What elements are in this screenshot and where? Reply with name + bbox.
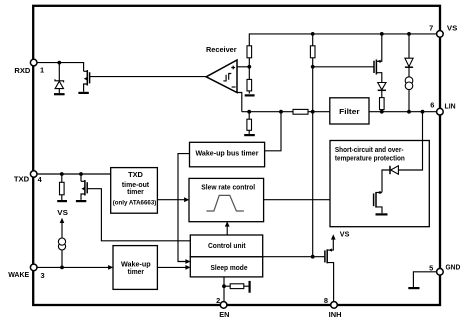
wire LIN rail left part bbox=[242, 111, 330, 113]
node LIN rail at x=381.8 bbox=[380, 110, 384, 114]
box TXD time-out timer bbox=[111, 168, 158, 214]
svg-text:Receiver: Receiver bbox=[206, 45, 237, 54]
wire TXD net bbox=[37, 173, 111, 175]
diode D2 below Q3 bbox=[378, 83, 386, 98]
pin EN (2) bbox=[220, 302, 227, 309]
svg-text:timer: timer bbox=[128, 267, 145, 276]
node TXD junction at x=81 bbox=[79, 172, 83, 176]
box Filter bbox=[330, 98, 369, 124]
diode D4 protection (pointing left) bbox=[382, 166, 398, 193]
svg-text:LIN: LIN bbox=[445, 101, 456, 110]
wire gate drive to Q3 bbox=[313, 66, 374, 68]
svg-text:Sleep mode: Sleep mode bbox=[211, 263, 248, 272]
transistor Q3 LIN driver MOSFET bbox=[374, 34, 382, 82]
resistor in LIN rail (horizontal) bbox=[293, 109, 308, 114]
arrow into sleep mode (top) bbox=[185, 259, 190, 264]
wire RXD net bbox=[37, 63, 84, 72]
svg-text:TXD: TXD bbox=[14, 175, 30, 184]
pin WAKE (3) bbox=[30, 264, 37, 271]
arrow to VS label bbox=[60, 218, 65, 223]
arrow into wake-up timer bbox=[108, 265, 113, 270]
transistor Q1 RXD output MOSFET bbox=[84, 70, 90, 92]
ground below divider bbox=[245, 94, 255, 96]
IC outer boundary bbox=[33, 6, 440, 305]
transistor Q5 INH driver MOSFET bbox=[325, 239, 334, 302]
current source I1 at x=409 bbox=[405, 77, 413, 112]
svg-text:RXD: RXD bbox=[14, 66, 31, 75]
wire GND pin to ground bbox=[413, 272, 437, 287]
svg-text:2: 2 bbox=[216, 296, 220, 305]
svg-text:3: 3 bbox=[41, 271, 45, 280]
zener diode D1 on RXD bbox=[55, 63, 64, 94]
wire receiver output to Q1 gate bbox=[90, 76, 207, 78]
arrow into slew rate control bottom bbox=[225, 221, 230, 226]
op-amp U1 receiver comparator bbox=[206, 60, 237, 93]
box Wake-up timer bbox=[113, 246, 157, 290]
svg-text:EN: EN bbox=[219, 310, 229, 319]
ground below Q1 bbox=[78, 92, 88, 94]
resistor below D2 bbox=[380, 98, 385, 110]
node LIN rail at x=409 bbox=[407, 110, 411, 114]
wire wake-up bus timer to LIN rail bbox=[265, 112, 281, 151]
node VS-rail junction at x=312.7 bbox=[311, 32, 315, 36]
svg-text:GND: GND bbox=[446, 263, 461, 272]
wire WAKE net bbox=[37, 266, 110, 268]
svg-text:Control unit: Control unit bbox=[208, 241, 246, 250]
node at x=312.7 on control output bbox=[311, 255, 315, 259]
svg-text:5: 5 bbox=[429, 264, 433, 273]
node LIN rail at x=422.5 bbox=[421, 110, 425, 114]
wire to ground bbox=[248, 91, 250, 94]
node TXD junction at x=61.8 bbox=[60, 172, 64, 176]
pin RXD (1) bbox=[30, 59, 37, 66]
node EN junction bbox=[222, 284, 226, 288]
node gate drive bbox=[311, 65, 315, 69]
wire slew output to Q4 gate bbox=[264, 199, 374, 201]
resistor TXD pull-up to VS bbox=[60, 174, 65, 200]
wire wake-up bus timer output to sleep mode bbox=[178, 154, 190, 262]
svg-text:1: 1 bbox=[40, 65, 44, 74]
transistor Q2 TXD input MOSFET bbox=[81, 174, 87, 200]
wire to LIN rail bbox=[381, 110, 383, 112]
svg-text:VS: VS bbox=[340, 230, 350, 239]
svg-text:Slew rate control: Slew rate control bbox=[201, 182, 255, 191]
ground below Q2 bbox=[76, 200, 86, 202]
svg-text:timer: timer bbox=[127, 187, 144, 196]
current source I2 at WAKE bbox=[58, 223, 65, 268]
wire Q2 gate to control unit bbox=[87, 189, 190, 241]
wire EN net bbox=[223, 277, 225, 302]
arrow VS for Q5 bbox=[331, 234, 336, 239]
svg-text:6: 6 bbox=[430, 100, 434, 109]
svg-text:INH: INH bbox=[329, 310, 342, 319]
box Wake-up bus timer bbox=[190, 142, 265, 167]
ground below Q4 bbox=[376, 213, 388, 215]
arrow into slew rate control bbox=[184, 197, 189, 202]
resistor divider top (VS to receiver +) bbox=[247, 46, 252, 58]
diode D3 from VS at x=409 bbox=[405, 34, 413, 77]
svg-text:Filter: Filter bbox=[339, 107, 360, 116]
resistor divider bottom bbox=[247, 79, 252, 91]
svg-text:VS: VS bbox=[57, 208, 68, 217]
wire + input bbox=[237, 66, 249, 68]
wire TXD timer output bbox=[157, 199, 185, 201]
transistor Q4 protection MOSFET bbox=[374, 191, 382, 213]
wire vertical x=312.7 bbox=[312, 58, 314, 257]
svg-text:WAKE: WAKE bbox=[8, 270, 29, 279]
node LIN rail at x=249.2 bbox=[247, 110, 251, 114]
wire control unit output to Q5 gate bbox=[263, 256, 325, 258]
ground at GND pin bbox=[408, 287, 419, 289]
bar terminal VS above label bbox=[57, 200, 67, 202]
resistor LIN pull-down bbox=[247, 112, 252, 134]
node LIN rail at x=281 bbox=[279, 110, 283, 114]
wire receiver - input down to LIN rail bbox=[237, 93, 242, 112]
ground below D1 bbox=[54, 93, 65, 95]
pin VS (7) bbox=[437, 31, 444, 38]
box Short-circuit and over-temperature protection bbox=[330, 141, 429, 227]
arrow into sleep mode (bottom) bbox=[185, 265, 190, 270]
wire VS rail bbox=[249, 34, 440, 46]
svg-text:temperature protection: temperature protection bbox=[335, 153, 405, 162]
wire LIN to protection diode bbox=[398, 112, 422, 170]
wire wake-up timer output bbox=[157, 266, 186, 268]
node LIN rail at x=312.7 bbox=[311, 110, 315, 114]
pin INH (8) bbox=[331, 302, 338, 309]
svg-text:VS: VS bbox=[447, 24, 457, 33]
node RXD junction bbox=[57, 61, 61, 65]
resistor gate pull-up at x=312.7 bbox=[310, 34, 315, 58]
node divider mid bbox=[247, 65, 251, 69]
wire LIN rail right part bbox=[369, 111, 440, 113]
svg-text:Wake-up bus timer: Wake-up bus timer bbox=[196, 149, 259, 158]
ground below LIN pull-down bbox=[244, 134, 255, 136]
wire divider bbox=[248, 58, 250, 80]
node VS-rail junction at x=409 bbox=[407, 32, 411, 36]
bar terminal for EN resistor bbox=[249, 281, 251, 293]
pin LIN (6) bbox=[437, 108, 444, 115]
slew rate trapezoid symbol bbox=[206, 195, 244, 211]
box Slew rate control bbox=[189, 178, 264, 221]
svg-text:7: 7 bbox=[429, 24, 433, 33]
svg-text:(only ATA6663): (only ATA6663) bbox=[113, 199, 157, 206]
box Sleep mode bbox=[190, 257, 262, 277]
wire control unit to slew rate control bbox=[226, 225, 228, 236]
node WAKE junction bbox=[60, 266, 64, 270]
pin TXD (4) bbox=[30, 171, 37, 178]
resistor EN pull-down (horizontal) bbox=[224, 284, 249, 289]
pin GND (5) bbox=[437, 269, 444, 276]
box Control unit bbox=[190, 235, 262, 257]
node VS-rail junction at x=381.8 bbox=[380, 32, 384, 36]
svg-text:TXD: TXD bbox=[128, 170, 143, 179]
svg-text:8: 8 bbox=[324, 296, 328, 305]
